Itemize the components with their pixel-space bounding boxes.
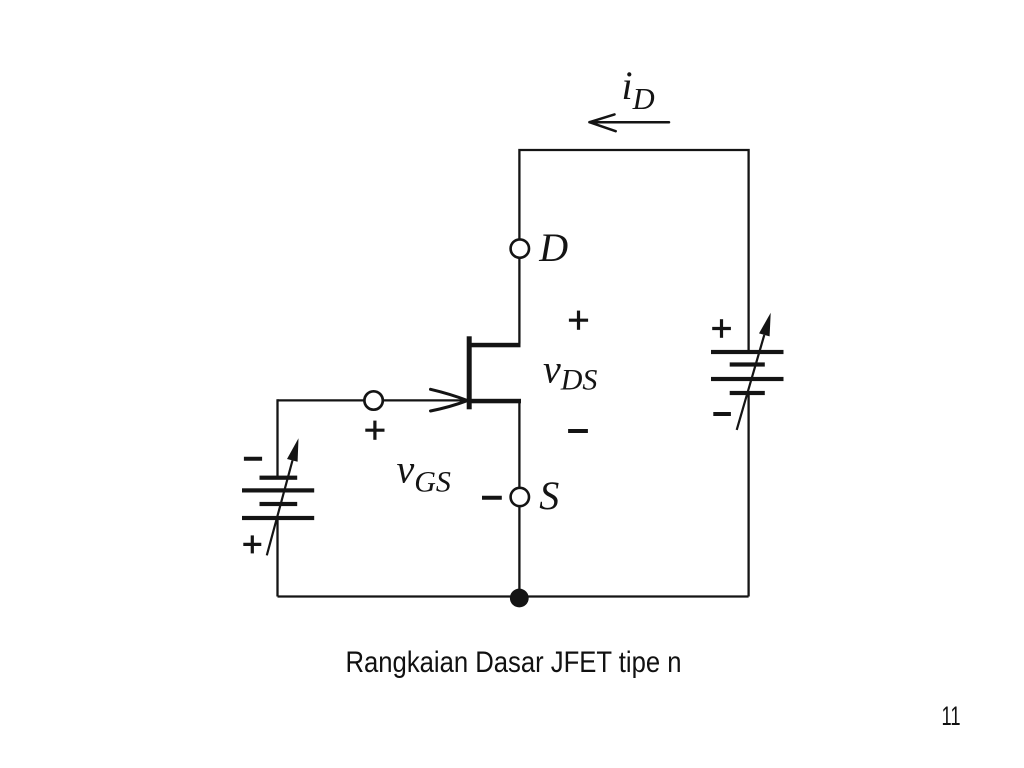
svg-text:vDS: vDS [543,347,597,397]
svg-text:Rangkaian Dasar JFET tipe n: Rangkaian Dasar JFET tipe n [346,646,682,679]
plus sign below gate circle [365,421,384,440]
minus sign left battery [244,457,262,461]
battery B1 (left, vGG) plates [242,476,314,521]
wire gate (left) [278,399,365,401]
svg-text:S: S [539,473,559,518]
wire left vertical lower [276,520,278,597]
battery B2 variable arrow [737,335,765,430]
wire top loop: drain top wire, top horizontal, right vertical upper [519,150,748,350]
wire right vertical lower [747,394,749,597]
wire left vertical upper [276,399,278,476]
node D terminal circle [511,239,529,257]
node S terminal circle [511,488,529,506]
plus sign above vDS [569,311,588,330]
transistor Q1 gate arrow [431,389,468,411]
wire S circle to bottom junction [518,507,520,597]
wire source lead to S circle [518,403,520,488]
plus sign left battery [243,535,261,553]
arrow iD (current direction, pointing left) [590,114,670,131]
battery B2 (right, vDD) plates [711,350,784,395]
minus sign right battery [713,412,731,416]
svg-text:vGS: vGS [397,447,451,499]
wire bottom horizontal [278,595,749,597]
wire D circle to drain lead [518,258,520,343]
wire gate circle to arrow [383,399,465,401]
node G terminal circle [364,391,382,409]
svg-text:11: 11 [942,701,961,731]
plus sign right battery [712,319,731,338]
minus sign left of S circle [482,496,502,500]
battery B1 variable arrow [267,460,293,555]
transistor Q1 JFET channel bar [467,336,472,409]
transistor Q1 source lead [469,399,521,404]
svg-text:D: D [538,225,568,270]
junction node dot [510,589,529,608]
svg-text:iD: iD [622,63,655,116]
minus sign below vDS [568,429,588,433]
transistor Q1 drain lead [469,343,521,348]
